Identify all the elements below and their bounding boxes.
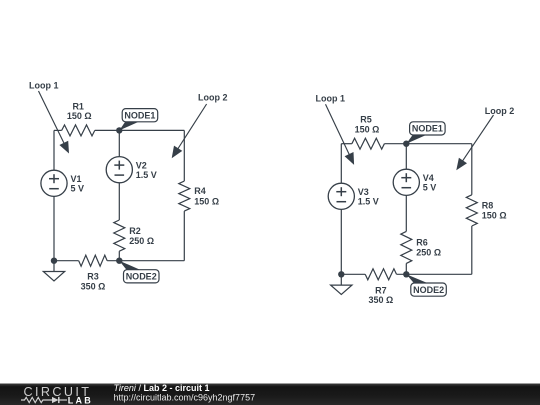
svg-text:Loop 1: Loop 1 (29, 80, 59, 90)
svg-text:1.5 V: 1.5 V (358, 197, 379, 207)
svg-text:5 V: 5 V (423, 183, 437, 193)
svg-text:http://circuitlab.com/c96yh2ng: http://circuitlab.com/c96yh2ngf7757 (114, 393, 256, 403)
svg-text:350 Ω: 350 Ω (369, 295, 394, 305)
svg-text:V2: V2 (136, 160, 147, 170)
svg-text:LAB: LAB (68, 395, 93, 405)
svg-text:R5: R5 (360, 115, 372, 125)
svg-text:250 Ω: 250 Ω (129, 236, 154, 246)
svg-text:150 Ω: 150 Ω (482, 211, 507, 221)
svg-text:V4: V4 (423, 173, 434, 183)
svg-text:150 Ω: 150 Ω (355, 124, 380, 134)
svg-text:R7: R7 (375, 285, 387, 295)
svg-text:Tireni / Lab 2 - circuit 1: Tireni / Lab 2 - circuit 1 (114, 383, 210, 393)
svg-text:5 V: 5 V (71, 184, 85, 194)
svg-text:R8: R8 (482, 201, 494, 211)
svg-text:V3: V3 (358, 187, 369, 197)
svg-text:NODE1: NODE1 (412, 124, 443, 134)
svg-text:NODE2: NODE2 (126, 272, 157, 282)
svg-text:R2: R2 (129, 226, 141, 236)
svg-text:350 Ω: 350 Ω (81, 281, 106, 291)
svg-text:NODE1: NODE1 (124, 111, 155, 121)
svg-text:1.5 V: 1.5 V (136, 170, 157, 180)
svg-text:Loop 2: Loop 2 (198, 93, 228, 103)
svg-text:250 Ω: 250 Ω (416, 248, 441, 258)
svg-text:150 Ω: 150 Ω (194, 196, 219, 206)
svg-text:Loop 1: Loop 1 (316, 93, 346, 103)
svg-text:V1: V1 (71, 174, 82, 184)
svg-text:150 Ω: 150 Ω (67, 111, 92, 121)
svg-text:Loop 2: Loop 2 (485, 106, 515, 116)
svg-text:NODE2: NODE2 (413, 285, 444, 295)
svg-text:R1: R1 (72, 101, 84, 111)
svg-text:R6: R6 (416, 238, 428, 248)
svg-text:R3: R3 (87, 272, 99, 282)
svg-text:R4: R4 (194, 186, 206, 196)
